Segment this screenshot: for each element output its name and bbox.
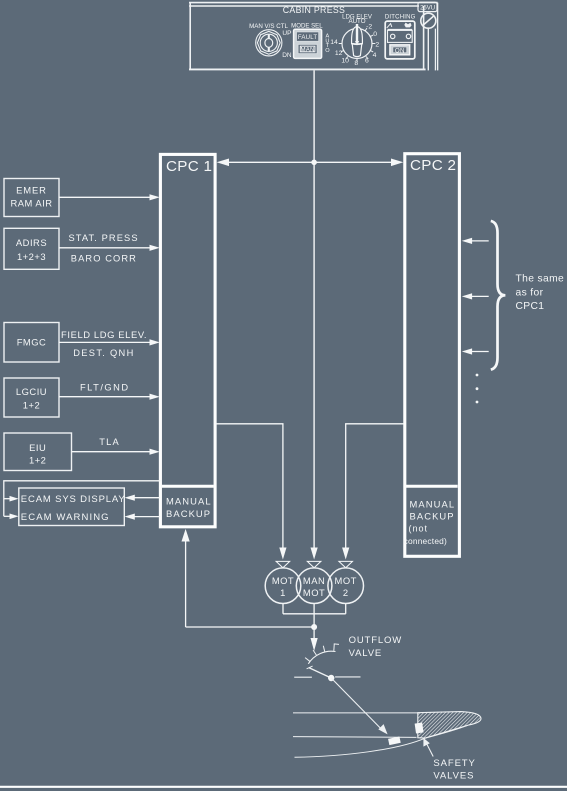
- brace same-as-CPC1: [491, 221, 506, 370]
- arrowhead into CPC2: [391, 159, 403, 167]
- wire MOT1 stem: [282, 604, 284, 614]
- svg-text:FAULT: FAULT: [298, 34, 318, 41]
- outflow valve position arc: [308, 651, 335, 664]
- node feedback junction dot: [311, 624, 317, 630]
- svg-text:CABIN PRESS: CABIN PRESS: [283, 5, 345, 15]
- svg-text:MOT: MOT: [335, 575, 357, 586]
- wire CPC1 to MOT1: [216, 424, 283, 549]
- wire CPC1 to ECAM upper: [133, 497, 160, 499]
- ON pushbutton: [390, 45, 410, 55]
- wire feedback into CPC1 manual backup: [185, 540, 187, 627]
- svg-text:1+2+3: 1+2+3: [17, 251, 46, 262]
- FAULT pushbutton: [297, 32, 319, 41]
- svg-text:as for: as for: [516, 287, 544, 298]
- tail cone hatched: [418, 712, 481, 739]
- ADIRS box: [4, 228, 59, 269]
- svg-text:STAT. PRESS: STAT. PRESS: [69, 233, 139, 243]
- svg-text:VALVES: VALVES: [433, 771, 474, 782]
- safety valve upper rect: [415, 723, 424, 734]
- wire brace to CPC2 lower: [470, 351, 489, 353]
- svg-text:MOT: MOT: [303, 587, 325, 598]
- svg-text:1+2: 1+2: [23, 400, 40, 411]
- leader safety valves: [426, 742, 434, 757]
- dial numbers: [330, 23, 379, 66]
- wire EMER RAM AIR to CPC1: [59, 196, 151, 198]
- MAN V/S CTL knob: [249, 23, 292, 59]
- fuselage bottom curve: [295, 720, 481, 758]
- svg-text:2: 2: [343, 587, 349, 598]
- motor MOT2 circle: [328, 568, 364, 604]
- wire CPC1 wraparound to ECAM bus: [4, 481, 161, 517]
- DITCHING guarded switch: [385, 15, 416, 59]
- svg-text:FIELD LDG ELEV.: FIELD LDG ELEV.: [61, 329, 147, 340]
- outflow valve rect on fuselage: [388, 736, 401, 745]
- wire motor bus: [283, 613, 346, 615]
- svg-text:DITCHING: DITCHING: [385, 15, 416, 21]
- fuselage top line: [293, 712, 420, 714]
- arrowhead to outflow valve: [311, 638, 318, 651]
- wire ADIRS to CPC1: [59, 247, 151, 249]
- outflow valve flap: [309, 668, 331, 678]
- svg-text:CPC1: CPC1: [516, 301, 545, 312]
- svg-text:MANUAL: MANUAL: [166, 495, 212, 506]
- ECAM display box: [19, 488, 125, 526]
- wire LGCIU to CPC1: [59, 396, 151, 398]
- wire CPC1 to CPC2 link: [226, 161, 394, 163]
- wire bus branch lower into ECAM box: [4, 515, 11, 517]
- wire CPC1 to ECAM lower: [133, 516, 160, 518]
- svg-text:14: 14: [330, 39, 338, 46]
- LDG ELEV AUTO selector: [330, 14, 379, 67]
- svg-text:UP: UP: [282, 30, 291, 37]
- wire EIU to CPC1: [72, 451, 152, 453]
- svg-text:VALVE: VALVE: [349, 648, 382, 659]
- node valve pivot dot: [328, 675, 334, 681]
- wire bus branch upper into ECAM box: [4, 498, 11, 500]
- wire junction down to MAN MOT: [313, 162, 315, 549]
- svg-text:ON: ON: [395, 48, 405, 55]
- CPC1 manual backup divider: [162, 485, 214, 488]
- wire MAN MOT down to valve: [313, 604, 315, 640]
- svg-text:CPC 2: CPC 2: [410, 157, 456, 174]
- wire feedback horizontal: [186, 626, 315, 628]
- CPC 2 box: [405, 154, 460, 557]
- svg-text:8: 8: [354, 60, 358, 67]
- 25VU label box: [418, 2, 437, 11]
- dial pointer knob: [352, 27, 363, 44]
- MODE SEL selector: [291, 23, 330, 59]
- EIU box: [4, 433, 72, 471]
- arrowhead into MOT1: [279, 548, 286, 560]
- svg-text:10: 10: [341, 58, 349, 65]
- svg-text:MAN: MAN: [303, 575, 325, 586]
- panel 25VU frame: [189, 3, 438, 71]
- screw fastener: [421, 13, 436, 28]
- arrowhead into MAN MOT: [311, 548, 318, 560]
- svg-text:2: 2: [375, 41, 379, 48]
- svg-text:DEST. QNH: DEST. QNH: [73, 348, 134, 358]
- svg-text:CPC 1: CPC 1: [166, 158, 212, 175]
- funnel into MAN MOT: [307, 561, 321, 567]
- svg-text:1: 1: [280, 587, 286, 598]
- leader pivot to fuselage valve: [331, 678, 382, 730]
- svg-text:EMER: EMER: [16, 185, 47, 196]
- wire FMGC to CPC1: [59, 341, 151, 343]
- svg-text:TLA: TLA: [99, 437, 120, 447]
- fuselage mid line: [293, 736, 417, 739]
- wire panel to junction: [313, 70, 315, 162]
- svg-text:OUTFLOW: OUTFLOW: [349, 635, 402, 646]
- wire brace to CPC2 middle: [470, 295, 489, 297]
- svg-text:FLT/GND: FLT/GND: [80, 383, 130, 393]
- svg-text:4: 4: [373, 52, 377, 59]
- motor MOT1 circle: [265, 568, 301, 604]
- svg-text:BACKUP: BACKUP: [410, 511, 455, 522]
- guard hinges: [391, 34, 395, 38]
- svg-text:0: 0: [373, 31, 377, 38]
- svg-text:MAN: MAN: [301, 46, 315, 53]
- svg-text:ECAM SYS DISPLAY: ECAM SYS DISPLAY: [21, 494, 126, 505]
- svg-text:connected): connected): [404, 536, 447, 546]
- dial tick marks: [339, 28, 376, 62]
- svg-text:(not: (not: [409, 524, 429, 534]
- svg-text:BACKUP: BACKUP: [166, 508, 211, 519]
- MAN pushbutton: [298, 44, 317, 53]
- svg-text:FMGC: FMGC: [17, 337, 47, 348]
- funnel into MOT1: [276, 561, 290, 567]
- wire CPC2 to MOT2: [346, 424, 404, 549]
- svg-text:MOT: MOT: [272, 575, 294, 586]
- EMER RAM AIR box: [4, 179, 59, 217]
- svg-text:MAN V/S CTL: MAN V/S CTL: [249, 23, 288, 30]
- outflow valve duct line right: [335, 676, 360, 678]
- svg-text:The same: The same: [516, 273, 565, 284]
- svg-text:12: 12: [335, 50, 343, 57]
- CPC 1 box: [160, 154, 215, 526]
- FMGC box: [4, 323, 59, 363]
- svg-text:ECAM WARNING: ECAM WARNING: [21, 512, 110, 523]
- svg-text:1+2: 1+2: [29, 455, 46, 466]
- arrowhead into CPC1: [217, 159, 229, 167]
- svg-text:O: O: [325, 48, 330, 54]
- motor MAN MOT circle: [296, 568, 332, 604]
- funnel into MOT2: [339, 561, 353, 567]
- svg-text:RAM AIR: RAM AIR: [10, 198, 52, 209]
- svg-text:6: 6: [365, 58, 369, 65]
- svg-text:BARO CORR: BARO CORR: [71, 254, 137, 264]
- svg-text:ADIRS: ADIRS: [16, 237, 47, 248]
- svg-text:DN: DN: [282, 52, 292, 59]
- wire MOT2 stem: [345, 604, 347, 614]
- wire brace to CPC2 upper: [470, 240, 489, 242]
- svg-text:SAFETY: SAFETY: [433, 758, 475, 769]
- guard flap: [388, 28, 413, 30]
- svg-text:LGCIU: LGCIU: [16, 386, 47, 397]
- svg-text:25VU: 25VU: [420, 6, 435, 12]
- svg-text:EIU: EIU: [29, 442, 46, 453]
- bottom border line: [0, 786, 567, 788]
- node ellipsis dots: [476, 374, 479, 377]
- arrowhead into MOT2: [342, 548, 349, 560]
- LGCIU box: [4, 378, 59, 417]
- CPC2 manual backup divider: [406, 485, 458, 488]
- guard frame: [388, 30, 413, 42]
- node junction dot: [311, 160, 317, 166]
- svg-text:-2: -2: [366, 23, 372, 30]
- outflow valve duct line left: [294, 676, 312, 678]
- svg-text:MANUAL: MANUAL: [410, 498, 456, 509]
